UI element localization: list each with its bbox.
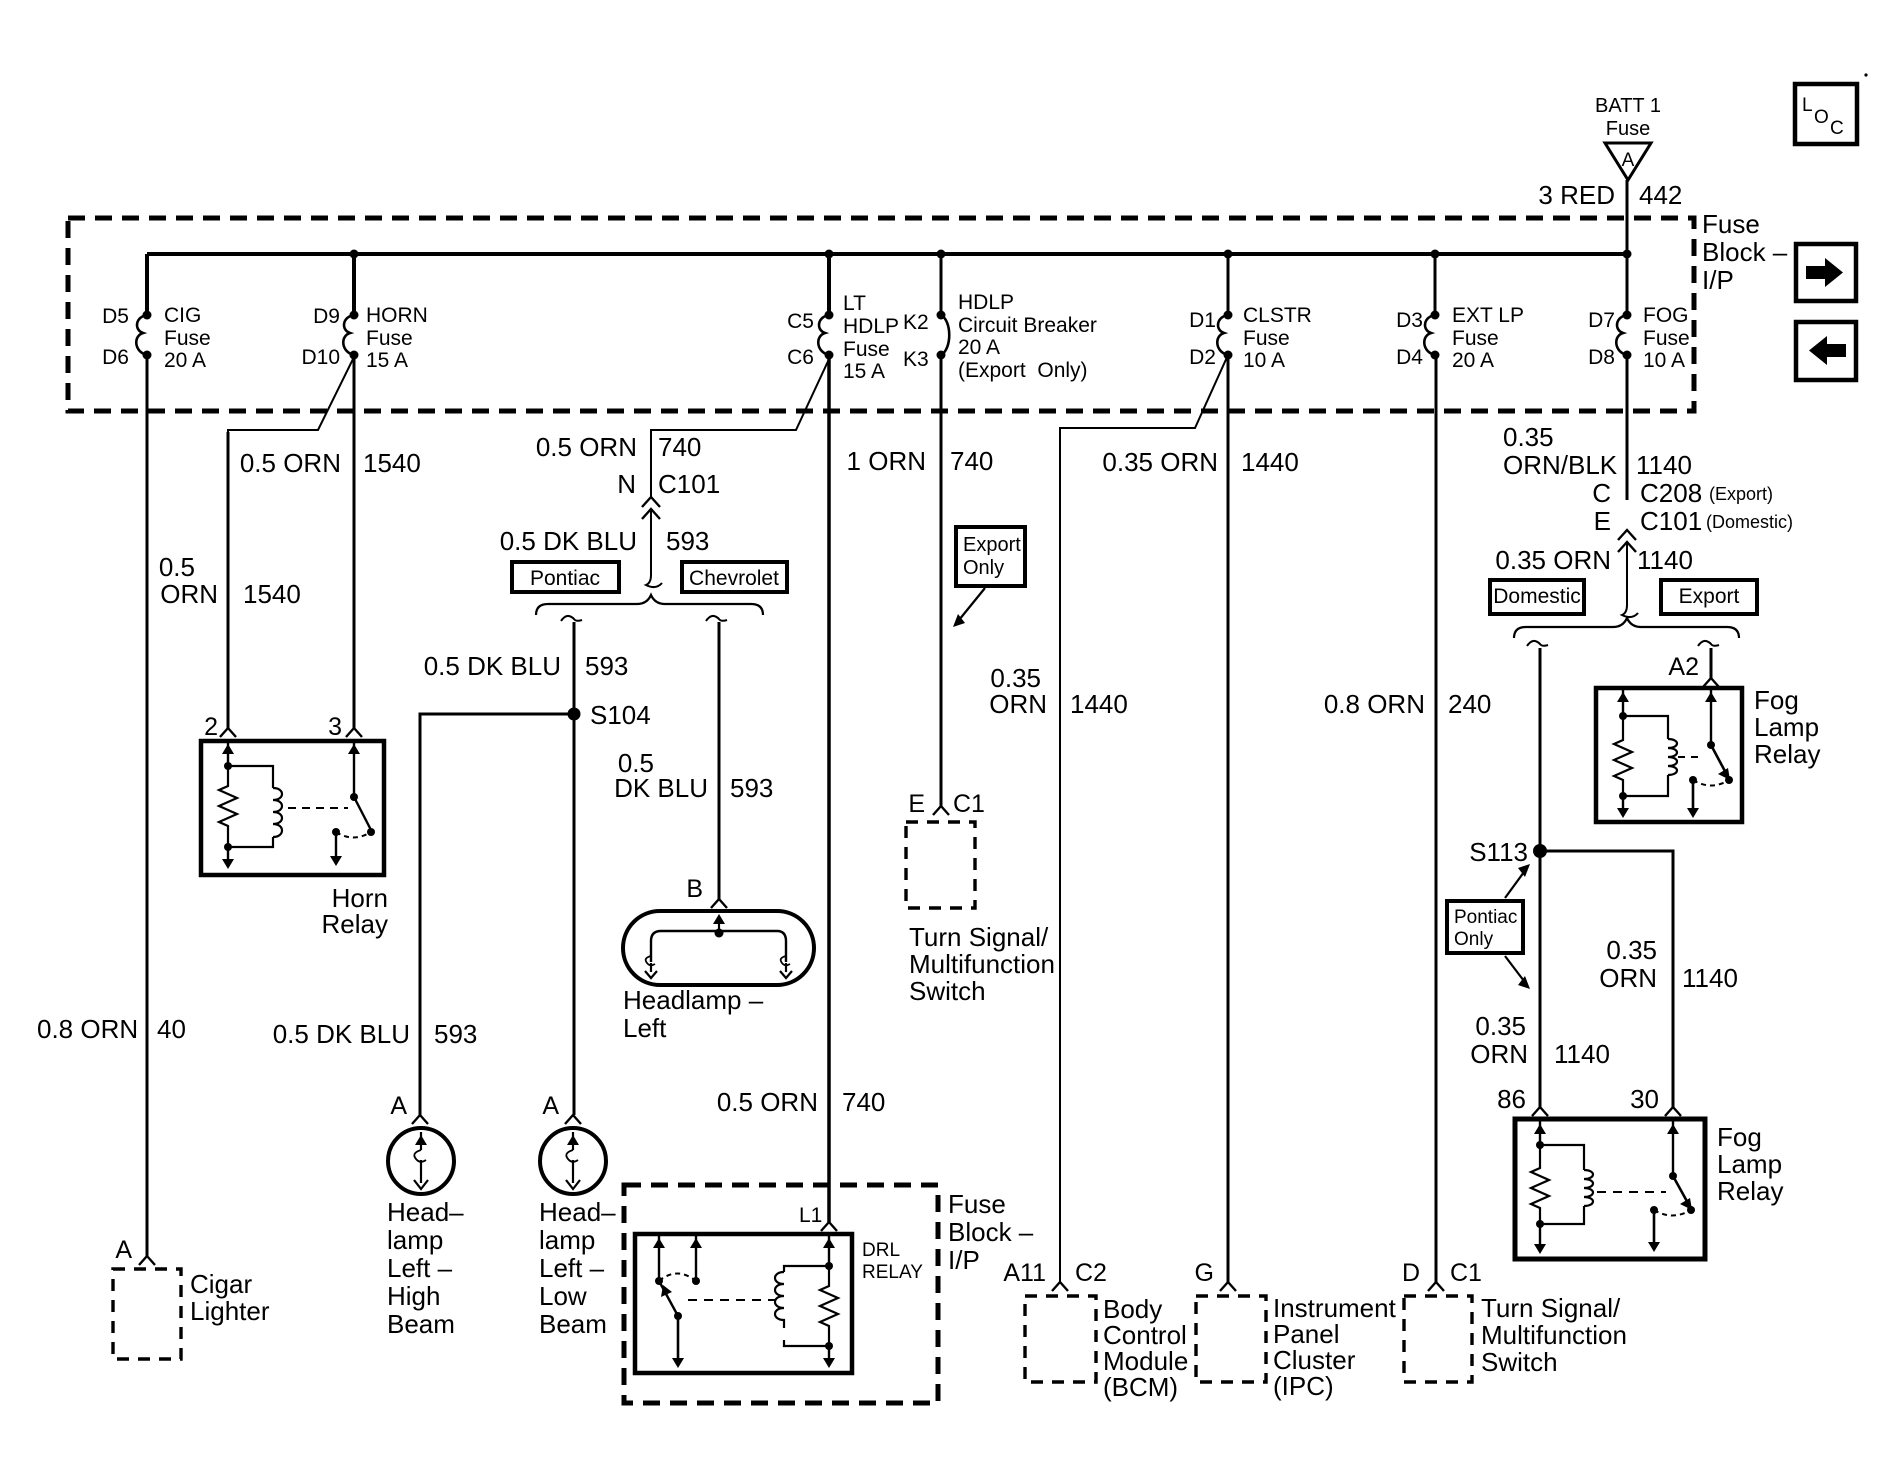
svg-text:1440: 1440: [1070, 689, 1128, 719]
svg-text:K3: K3: [903, 348, 929, 371]
pin A11 C2 body control module: [1003, 1259, 1107, 1291]
svg-text:EXT LP: EXT LP: [1452, 304, 1524, 327]
wire HDLP breaker output 1 ORN 740: [847, 355, 994, 806]
horn relay: [201, 741, 388, 939]
pin 2 horn relay: [204, 713, 236, 741]
legend arrow left box: [1796, 322, 1856, 380]
svg-text:S104: S104: [590, 700, 651, 730]
fuse LT HDLP 15A C5/C6: [787, 254, 899, 383]
svg-text:20 A: 20 A: [1452, 349, 1494, 372]
svg-text:Block –: Block –: [1702, 237, 1788, 267]
wire label 0.35 ORN 1140 (86 branch): [1470, 1011, 1610, 1069]
connector hook below 1140 wire: [1622, 605, 1638, 617]
svg-text:Fuse: Fuse: [366, 327, 413, 350]
headlamp left low beam bulb: [539, 1128, 616, 1339]
body control module (BCM): [1025, 1294, 1188, 1402]
node at FOG fuse: [1623, 250, 1632, 259]
wire FOG fuse output 0.35 ORN/BLK 1140: [1503, 355, 1692, 500]
svg-text:Head–: Head–: [539, 1197, 616, 1227]
svg-text:Cigar: Cigar: [190, 1269, 252, 1299]
svg-text:Left –: Left –: [539, 1253, 605, 1283]
svg-text:A: A: [542, 1092, 559, 1120]
leader arrow Pontiac Only to S113: [1505, 864, 1530, 898]
svg-text:Fuse: Fuse: [164, 327, 211, 350]
svg-text:ORN: ORN: [1599, 963, 1657, 993]
svg-text:Fuse: Fuse: [1452, 327, 1499, 350]
pin A headlamp high beam: [390, 1092, 428, 1124]
horn relay switch: [330, 743, 375, 866]
svg-text:Switch: Switch: [909, 976, 986, 1006]
svg-text:Circuit Breaker: Circuit Breaker: [958, 314, 1097, 337]
svg-text:Head–: Head–: [387, 1197, 464, 1227]
svg-text:ORN: ORN: [160, 579, 218, 609]
pin D C1 turn signal switch (lower): [1402, 1259, 1482, 1291]
pin A2 fog lamp relay: [1668, 653, 1719, 687]
svg-text:0.5 ORN: 0.5 ORN: [717, 1087, 818, 1117]
svg-text:K2: K2: [903, 311, 929, 334]
fog lamp relay (pontiac) box: [1515, 1119, 1783, 1259]
option box Domestic: [1490, 580, 1584, 614]
svg-text:1140: 1140: [1637, 545, 1693, 575]
pin A headlamp low beam: [542, 1092, 581, 1124]
fog lamp relay (pontiac) coil and resistor: [1531, 1121, 1593, 1254]
svg-text:0.8 ORN: 0.8 ORN: [37, 1014, 138, 1044]
pin A cigar lighter: [115, 1236, 155, 1265]
wire Chevrolet branch 0.5 DK BLU 593: [614, 622, 773, 899]
svg-text:593: 593: [434, 1019, 477, 1049]
svg-text:C6: C6: [787, 346, 814, 369]
svg-text:Left –: Left –: [387, 1253, 453, 1283]
connector hook Export branch: [1698, 641, 1719, 646]
svg-text:Lamp: Lamp: [1754, 712, 1819, 742]
svg-text:593: 593: [585, 651, 628, 681]
headlamp left (dual filament): [623, 911, 814, 1043]
svg-text:C2: C2: [1075, 1259, 1107, 1287]
svg-text:15 A: 15 A: [843, 360, 885, 383]
leader arrow Export Only: [953, 588, 985, 627]
svg-text:E: E: [908, 790, 925, 818]
wire 0.5 DK BLU 593 below C101: [500, 509, 710, 575]
pin B headlamp left: [686, 875, 727, 908]
horn relay coil: [228, 766, 282, 847]
splice overbrace Domestic/Export: [1514, 618, 1739, 638]
svg-text:High: High: [387, 1281, 440, 1311]
svg-text:I/P: I/P: [948, 1245, 980, 1275]
svg-text:C5: C5: [787, 310, 814, 333]
fuse CLSTR 10A D1/D2: [1189, 254, 1312, 372]
svg-text:Fuse: Fuse: [1702, 209, 1760, 239]
svg-text:30: 30: [1630, 1084, 1659, 1114]
horn relay coil pin wire with arrows: [222, 743, 234, 869]
svg-text:lamp: lamp: [387, 1225, 443, 1255]
pin G instrument panel cluster: [1195, 1259, 1236, 1291]
svg-text:D3: D3: [1396, 309, 1423, 332]
wire HORN fuse to relay pin 2, 0.5 ORN 1540: [159, 357, 354, 728]
svg-text:DK BLU: DK BLU: [614, 773, 708, 803]
svg-text:Low: Low: [539, 1281, 587, 1311]
fog lamp relay (pontiac) dashed link: [1597, 1191, 1666, 1193]
svg-text:Fuse: Fuse: [1643, 327, 1690, 350]
svg-text:Fuse: Fuse: [843, 338, 890, 361]
svg-text:Fog: Fog: [1754, 685, 1799, 715]
svg-text:2: 2: [204, 713, 218, 741]
svg-text:(Domestic): (Domestic): [1706, 512, 1793, 532]
svg-text:Fog: Fog: [1717, 1122, 1762, 1152]
instrument panel cluster (IPC): [1196, 1293, 1397, 1401]
svg-text:Relay: Relay: [322, 909, 388, 939]
fog lamp relay (export) switch: [1687, 690, 1733, 818]
connector hook Domestic branch: [1527, 641, 1548, 646]
svg-text:A2: A2: [1668, 653, 1699, 681]
svg-text:0.5 DK BLU: 0.5 DK BLU: [424, 651, 561, 681]
svg-text:HDLP: HDLP: [958, 291, 1014, 314]
fog lamp relay (export) box: [1596, 685, 1820, 822]
svg-text:593: 593: [730, 773, 773, 803]
svg-text:1 ORN: 1 ORN: [847, 446, 926, 476]
bus wire inside fuse block: [147, 252, 1627, 256]
circuit breaker HDLP 20A K2/K3 (Export Only): [903, 254, 1097, 382]
legend LOC box: [1795, 84, 1857, 144]
pin 3 horn relay: [328, 713, 362, 741]
svg-text:A: A: [390, 1092, 407, 1120]
svg-text:D7: D7: [1588, 309, 1615, 332]
svg-text:Only: Only: [963, 557, 1004, 579]
svg-text:Lighter: Lighter: [190, 1296, 270, 1326]
svg-text:C1: C1: [953, 790, 985, 818]
svg-text:Switch: Switch: [1481, 1347, 1558, 1377]
svg-text:0.35 ORN: 0.35 ORN: [1102, 447, 1218, 477]
svg-text:C1: C1: [1450, 1259, 1482, 1287]
svg-text:1140: 1140: [1554, 1039, 1610, 1069]
svg-text:Pontiac: Pontiac: [1454, 907, 1517, 928]
svg-text:0.35: 0.35: [1475, 1011, 1526, 1041]
svg-text:0.5 DK BLU: 0.5 DK BLU: [273, 1019, 410, 1049]
svg-text:C101: C101: [1640, 506, 1702, 536]
svg-text:A11: A11: [1003, 1259, 1046, 1287]
horn relay resistor: [219, 766, 237, 847]
fog lamp relay (pontiac) switch: [1648, 1121, 1695, 1252]
headlamp left high beam bulb: [387, 1128, 464, 1339]
pin E C1 turn signal switch: [908, 790, 985, 818]
svg-text:L: L: [1802, 95, 1813, 116]
svg-text:(BCM): (BCM): [1103, 1372, 1178, 1402]
svg-text:Export: Export: [1679, 585, 1740, 608]
svg-text:C101: C101: [658, 469, 720, 499]
fuse EXT LP 20A D3/D4: [1396, 254, 1524, 372]
wire EXT LP fuse output 0.8 ORN 240: [1324, 355, 1492, 1282]
svg-text:Turn Signal/: Turn Signal/: [909, 922, 1049, 952]
fog lamp relay (export) dashed link: [1678, 756, 1704, 758]
svg-text:240: 240: [1448, 689, 1491, 719]
note box Export Only: [956, 527, 1025, 586]
svg-text:D1: D1: [1189, 309, 1216, 332]
svg-text:ORN: ORN: [989, 689, 1047, 719]
wire S113 to pin 30 0.35 ORN 1140: [1540, 851, 1738, 1107]
svg-text:Fuse: Fuse: [1606, 118, 1650, 140]
svg-text:1440: 1440: [1241, 447, 1299, 477]
node at HDLP breaker: [937, 250, 946, 259]
connector hook Chevrolet branch: [706, 616, 727, 621]
svg-text:1140: 1140: [1636, 450, 1692, 480]
connector hook below C101: [646, 575, 662, 587]
svg-text:CIG: CIG: [164, 304, 201, 327]
wire CLSTR branch to BCM 0.35 ORN 1440: [989, 355, 1228, 1282]
svg-text:Left: Left: [623, 1013, 667, 1043]
svg-text:0.5 DK BLU: 0.5 DK BLU: [500, 526, 637, 556]
svg-text:20 A: 20 A: [164, 349, 206, 372]
svg-text:O: O: [1814, 107, 1829, 128]
wire 0.35 ORN 1140 below connector: [1495, 542, 1693, 605]
svg-text:10 A: 10 A: [1243, 349, 1285, 372]
wire LT HDLP fuse to DRL relay 0.5 ORN 740: [717, 355, 886, 1222]
svg-text:Domestic: Domestic: [1493, 585, 1581, 608]
svg-text:10 A: 10 A: [1643, 349, 1685, 372]
DRL relay dashed link: [688, 1299, 776, 1301]
wire HORN fuse output to relay pin 3, 0.5 ORN 1540: [240, 355, 421, 728]
svg-text:740: 740: [950, 446, 993, 476]
svg-text:20 A: 20 A: [958, 336, 1000, 359]
turn signal multifunction switch (lower): [1404, 1293, 1627, 1382]
svg-text:0.5 ORN: 0.5 ORN: [240, 448, 341, 478]
svg-text:ORN/BLK: ORN/BLK: [1503, 450, 1618, 480]
svg-text:0.35: 0.35: [1606, 935, 1657, 965]
svg-text:15 A: 15 A: [366, 349, 408, 372]
svg-text:0.8 ORN: 0.8 ORN: [1324, 689, 1425, 719]
fuse FOG 10A D7/D8: [1588, 254, 1690, 372]
svg-text:I/P: I/P: [1702, 265, 1734, 295]
svg-text:(Export Only): (Export Only): [958, 359, 1088, 382]
svg-text:Export: Export: [963, 534, 1021, 556]
svg-text:S113: S113: [1469, 837, 1528, 867]
svg-text:lamp: lamp: [539, 1225, 595, 1255]
stray mark: [1864, 73, 1867, 76]
node at HORN fuse: [350, 250, 359, 259]
svg-text:FOG: FOG: [1643, 304, 1689, 327]
svg-text:Headlamp –: Headlamp –: [623, 985, 764, 1015]
svg-text:RELAY: RELAY: [862, 1262, 923, 1283]
pin 30 fog lamp relay: [1630, 1084, 1681, 1116]
svg-text:0.5: 0.5: [159, 552, 195, 582]
connector C101 pin N (double chevron): [617, 469, 720, 519]
legend arrow right box: [1796, 244, 1856, 301]
fuse HORN 15A D9/D10: [301, 254, 427, 372]
wire Domestic branch to S113 and pin 86: [1539, 648, 1542, 1107]
svg-text:A: A: [115, 1236, 132, 1264]
pin 86 fog lamp relay: [1497, 1084, 1548, 1116]
svg-text:593: 593: [666, 526, 709, 556]
svg-text:Multifunction: Multifunction: [1481, 1320, 1627, 1350]
wire Export branch to fog lamp relay A2: [1710, 648, 1713, 678]
DRL relay switch contacts: [653, 1236, 702, 1368]
note box Pontiac Only: [1447, 901, 1523, 953]
connector C208 (Export) pin C / C101 (Domestic) pin E: [1592, 478, 1793, 552]
battery feed BATT 1 Fuse A: [1595, 95, 1661, 180]
svg-text:Fuse: Fuse: [948, 1189, 1006, 1219]
svg-text:(IPC): (IPC): [1273, 1371, 1334, 1401]
svg-text:C208: C208: [1640, 478, 1702, 508]
svg-text:C: C: [1830, 118, 1844, 139]
label Fuse Block - I/P (top right): [1702, 209, 1788, 295]
pin L1 DRL relay: [799, 1204, 837, 1231]
DRL relay coil and resistor: [775, 1234, 838, 1368]
svg-text:Beam: Beam: [387, 1309, 455, 1339]
fuse CIG 20A D5/D6: [102, 254, 211, 372]
svg-text:Only: Only: [1454, 929, 1494, 950]
svg-text:40: 40: [157, 1014, 186, 1044]
svg-text:BATT 1: BATT 1: [1595, 95, 1661, 117]
option box Pontiac: [512, 562, 619, 592]
svg-text:D2: D2: [1189, 346, 1216, 369]
wire CIG fuse output 0.8 ORN 40: [37, 355, 186, 1256]
horn relay coil-switch dashed link: [288, 807, 348, 809]
wire CLSTR fuse output 0.35 ORN 1440: [1102, 355, 1298, 1282]
fuse block I/P dashed enclosure (DRL): [624, 1185, 1034, 1403]
svg-text:D8: D8: [1588, 346, 1615, 369]
wire LT HDLP fuse branch to C101, 0.5 ORN 740: [536, 357, 830, 498]
svg-text:D: D: [1402, 1259, 1420, 1287]
svg-text:Turn Signal/: Turn Signal/: [1481, 1293, 1621, 1323]
svg-text:3: 3: [328, 713, 342, 741]
svg-text:D4: D4: [1396, 346, 1423, 369]
svg-text:3 RED: 3 RED: [1538, 180, 1615, 210]
node at EXT LP fuse: [1431, 250, 1440, 259]
splice S113: [1469, 837, 1547, 867]
svg-text:D5: D5: [102, 305, 129, 328]
svg-text:0.35 ORN: 0.35 ORN: [1495, 545, 1611, 575]
svg-text:C: C: [1592, 478, 1611, 508]
svg-text:0.5 ORN: 0.5 ORN: [536, 432, 637, 462]
node at CLSTR fuse: [1224, 250, 1233, 259]
splice overbrace Pontiac/Chevrolet: [536, 595, 763, 615]
svg-text:HORN: HORN: [366, 304, 428, 327]
DRL relay box: [635, 1234, 923, 1373]
svg-text:442: 442: [1639, 180, 1682, 210]
svg-text:Fuse: Fuse: [1243, 327, 1290, 350]
svg-text:N: N: [617, 469, 636, 499]
svg-text:L1: L1: [799, 1204, 822, 1227]
svg-text:E: E: [1594, 506, 1611, 536]
svg-text:Relay: Relay: [1754, 739, 1820, 769]
leader arrow Pontiac Only to wire: [1505, 956, 1530, 989]
svg-text:Block –: Block –: [948, 1217, 1034, 1247]
fog lamp relay (export) coil and resistor: [1614, 690, 1677, 818]
svg-text:Beam: Beam: [539, 1309, 607, 1339]
svg-text:B: B: [686, 875, 703, 903]
svg-text:740: 740: [658, 432, 701, 462]
svg-text:1540: 1540: [363, 448, 421, 478]
svg-text:A: A: [1622, 150, 1635, 171]
turn signal multifunction switch (upper): [906, 822, 1055, 1006]
connector hook Pontiac branch: [561, 616, 582, 621]
wire battery to bus, circuit 442: [1538, 180, 1682, 254]
svg-text:D6: D6: [102, 346, 129, 369]
svg-text:Lamp: Lamp: [1717, 1149, 1782, 1179]
option box Chevrolet: [682, 562, 787, 592]
svg-text:1140: 1140: [1682, 963, 1738, 993]
svg-text:D10: D10: [301, 346, 340, 369]
svg-text:Pontiac: Pontiac: [530, 567, 600, 590]
svg-text:LT: LT: [843, 292, 866, 315]
svg-text:G: G: [1195, 1259, 1214, 1287]
svg-text:HDLP: HDLP: [843, 315, 899, 338]
wire Pontiac branch 0.5 DK BLU 593: [424, 622, 629, 1115]
svg-text:1540: 1540: [243, 579, 301, 609]
svg-text:CLSTR: CLSTR: [1243, 304, 1312, 327]
svg-text:DRL: DRL: [862, 1240, 900, 1261]
splice S104: [568, 700, 651, 730]
svg-text:Chevrolet: Chevrolet: [689, 567, 779, 590]
svg-text:D9: D9: [313, 305, 340, 328]
svg-text:Multifunction: Multifunction: [909, 949, 1055, 979]
node at LT HDLP fuse: [825, 250, 834, 259]
svg-text:86: 86: [1497, 1084, 1526, 1114]
wire S104 branch to high beam 0.5 DK BLU 593: [273, 714, 574, 1115]
svg-text:0.35: 0.35: [1503, 422, 1554, 452]
cigar lighter: [113, 1269, 270, 1359]
option box Export: [1661, 580, 1757, 614]
fuse block I/P dashed enclosure: [68, 218, 1694, 411]
svg-text:ORN: ORN: [1470, 1039, 1528, 1069]
svg-text:Relay: Relay: [1717, 1176, 1783, 1206]
svg-text:740: 740: [842, 1087, 885, 1117]
svg-text:(Export): (Export): [1709, 484, 1773, 504]
